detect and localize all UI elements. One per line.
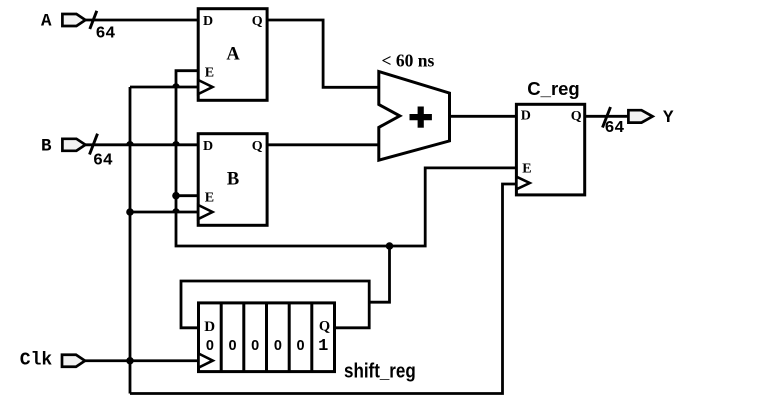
svg-text:0: 0 <box>228 338 236 354</box>
svg-text:A: A <box>226 45 240 65</box>
svg-text:64: 64 <box>93 151 113 170</box>
svg-text:0: 0 <box>206 338 214 354</box>
svg-text:Q: Q <box>571 109 582 124</box>
wire enable tap to B.E <box>176 194 198 197</box>
bus width slash A <box>90 11 97 29</box>
adder U1 <box>379 72 450 161</box>
register C_reg <box>516 104 584 195</box>
wire B bus from port B to register B D input <box>85 143 198 146</box>
wire Clk to register A clock input <box>130 86 198 89</box>
input port B <box>62 139 85 151</box>
wire shift_reg feedback ring Q to D <box>181 281 369 328</box>
bus width slash B <box>90 134 98 155</box>
wire hop enable riser over A clock wire <box>172 83 180 87</box>
svg-text:0: 0 <box>274 338 282 354</box>
junction enable x B.E <box>172 192 180 200</box>
svg-text:Q: Q <box>252 14 263 29</box>
svg-text:D: D <box>521 109 531 124</box>
wire Clk riser up to A clock and down to bottom rail <box>129 87 132 394</box>
register B <box>198 134 267 226</box>
shift register shift_reg <box>199 303 335 372</box>
svg-text:Q: Q <box>319 319 330 335</box>
svg-text:0: 0 <box>251 338 259 354</box>
wire enable net: A.E down left riser, along E rail, up to C_reg.E <box>176 71 516 246</box>
input port Clk <box>62 355 85 367</box>
svg-text:E: E <box>205 191 214 206</box>
svg-text:0: 0 <box>296 338 304 354</box>
wire A.Q to adder top input <box>267 20 379 87</box>
wire Clk tap to register B clock input <box>130 211 198 214</box>
wire hop enable riser over B bus <box>172 141 180 145</box>
svg-text:< 60 ns: < 60 ns <box>382 51 435 71</box>
wire adder output to C_reg D input <box>450 115 517 118</box>
svg-text:64: 64 <box>605 118 625 137</box>
svg-text:E: E <box>522 161 531 176</box>
register A <box>198 9 267 101</box>
wire hop enable riser over B clock wire <box>172 208 180 212</box>
svg-text:E: E <box>205 66 214 81</box>
output bus width slash Y <box>603 107 611 128</box>
svg-text:A: A <box>41 12 52 32</box>
wire Clk bottom rail to C_reg clock input <box>130 184 516 394</box>
wire B.Q to adder bottom input <box>267 143 379 146</box>
junction Clk x shift_reg clock <box>126 357 134 365</box>
svg-text:64: 64 <box>96 24 116 43</box>
wire enable rail down to shift_reg feedback ring <box>369 246 389 302</box>
wire hop Clk riser over B bus <box>126 141 134 145</box>
svg-text:D: D <box>204 319 215 335</box>
svg-text:1: 1 <box>318 337 328 356</box>
svg-text:shift_reg: shift_reg <box>344 359 416 382</box>
svg-text:B: B <box>227 170 239 190</box>
junction Clk x B clock <box>126 208 134 216</box>
wire A bus from port A to register A D input <box>85 19 198 22</box>
svg-text:Y: Y <box>663 108 674 128</box>
junction enable rail x ring drop <box>386 242 394 250</box>
output port Y <box>628 110 652 122</box>
wire Clk bus from port Clk to shift_reg clock input <box>85 359 199 362</box>
svg-text:D: D <box>203 14 213 29</box>
svg-text:C_reg: C_reg <box>527 78 579 99</box>
svg-text:Clk: Clk <box>20 351 53 371</box>
svg-text:D: D <box>203 139 213 154</box>
svg-text:Q: Q <box>252 139 263 154</box>
wire C_reg.Q to output port Y <box>585 115 629 118</box>
input port A <box>62 14 85 26</box>
svg-text:B: B <box>41 136 52 156</box>
